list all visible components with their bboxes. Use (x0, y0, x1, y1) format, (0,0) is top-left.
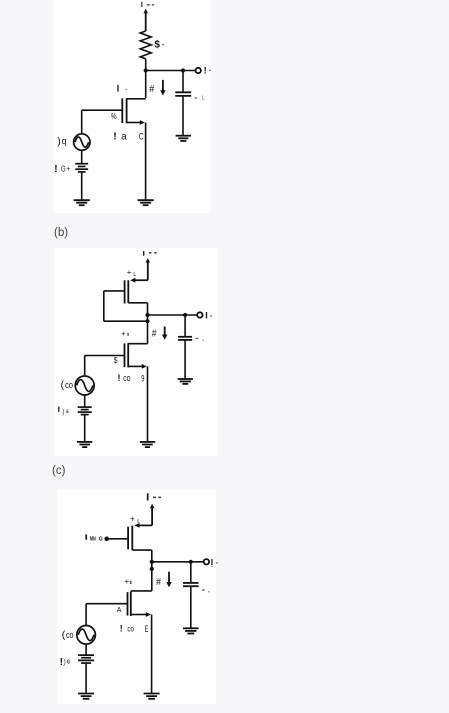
svg-text:$: $ (114, 356, 118, 365)
svg-text:co: co (65, 380, 73, 390)
svg-text:+: + (124, 576, 129, 586)
svg-text:!: ! (54, 164, 57, 175)
svg-text:!: ! (118, 373, 121, 383)
svg-text:+: + (121, 329, 126, 338)
svg-text:!: ! (204, 65, 207, 76)
svg-text:#: # (156, 577, 161, 588)
svg-text:co: co (66, 630, 74, 640)
svg-text:!: ! (120, 623, 123, 633)
svg-text:+: + (66, 166, 70, 173)
svg-text:G: G (61, 164, 66, 174)
svg-text:$: $ (154, 40, 160, 51)
svg-text:(: ( (61, 380, 65, 391)
svg-text:+: + (127, 267, 132, 276)
svg-text:q: q (62, 136, 67, 147)
svg-text:): ) (62, 409, 64, 416)
svg-text:+: + (130, 514, 135, 524)
svg-text:A: A (117, 607, 122, 614)
svg-text:#: # (149, 84, 154, 95)
svg-text:!: ! (113, 131, 117, 143)
svg-text:): ) (63, 657, 66, 666)
svg-text:G: G (99, 537, 103, 543)
svg-text:C: C (139, 132, 144, 143)
svg-text:#: # (152, 328, 157, 339)
svg-text:a: a (66, 408, 69, 415)
svg-text:L: L (133, 272, 136, 278)
svg-text:%: % (111, 111, 117, 121)
svg-text:co: co (123, 373, 130, 383)
svg-text:L: L (137, 519, 140, 525)
svg-text:9: 9 (141, 374, 144, 384)
svg-text:a: a (121, 132, 127, 143)
svg-text:L: L (202, 96, 205, 102)
svg-text:): ) (57, 136, 61, 148)
svg-text:G: G (67, 660, 71, 666)
svg-text:MN: MN (90, 536, 96, 542)
svg-text:co: co (127, 623, 134, 633)
svg-text:E: E (145, 624, 149, 634)
